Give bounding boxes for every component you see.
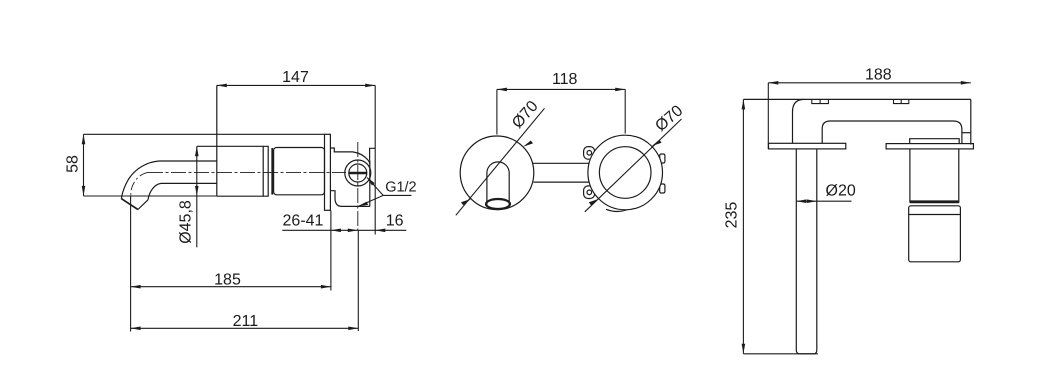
svg-text:Ø20: Ø20 [826,183,856,200]
dimension 188 left arrow [768,81,778,85]
dimension O20 right arrow [807,199,817,203]
body top line [743,98,970,100]
right handle inner circle [599,147,651,199]
bracket top ear hole [587,151,592,156]
dimension 147 line [217,84,375,86]
left O70 diameter line [456,108,545,215]
svg-text:211: 211 [233,313,259,330]
spout mouth inner edge [138,200,148,210]
valve G1/2 inner circle [349,164,367,182]
dimension 235 bottom arrow [742,344,746,354]
dimension 147 left arrow [217,84,227,88]
spout outer curve [121,161,159,199]
dimension 26-41 / 16 line [282,229,406,231]
dimension 235 line [742,99,744,353]
dimension 26-41 left arrow [331,229,341,233]
spout front U shape [487,162,509,206]
valve vertical centerline dash-dot [357,142,359,230]
G1/2 leader circle arrow [367,177,375,186]
extension line spout tip [130,196,132,331]
dimension 118 left arrow [497,88,507,92]
bracket right top tab [660,154,665,163]
elbow pipe wall [793,99,805,143]
valve G1/2 outer circle [345,160,371,186]
dimension O45,8 top arrow [195,146,199,156]
dimension 185 line [131,286,331,288]
G1/2 leader bottom arrow [358,202,368,207]
handle lower barrel line [909,214,961,216]
dimension 235 top arrow [742,99,746,109]
left O70 upper arrow [523,141,533,147]
dimension 16 right arrow [375,229,385,233]
svg-text:147: 147 [282,69,309,86]
handle lower barrel [909,206,961,262]
dimension 211 right arrow [348,327,358,331]
dimension O45,8 top extension line [197,145,217,147]
wall flange [325,134,331,210]
extension line right circle centre [624,89,626,133]
bracket bottom ear hole [587,190,592,195]
svg-text:185: 185 [214,272,241,289]
connecting pipe top line [533,162,590,164]
right O70 lower arrow [589,199,599,205]
extension line left circle centre [496,89,498,134]
spout opening ellipse [486,199,510,209]
spout centerline dash-dot [131,172,148,199]
dimension 147 right extension line [374,85,376,234]
dimension 118 right arrow [615,88,625,92]
dimension 118 line [497,88,625,90]
dimension 58 bottom extension line at body bottom [84,195,217,197]
dimension 185 right arrow [321,285,331,289]
valve slot bar [349,172,367,175]
svg-text:235: 235 [724,202,741,229]
G1/2 leader to circle [367,178,383,196]
right handle outer circle [588,135,663,210]
svg-text:26-41: 26-41 [283,212,324,229]
handle dark joint band [910,200,959,203]
right escutcheon plate [886,144,973,149]
top clip tab left [812,99,829,103]
dimension 211 line [131,327,359,329]
right O70 diameter line [585,119,682,212]
connecting pipe bottom line [534,181,591,183]
dimension O45,8 bottom arrow [195,186,199,196]
svg-text:16: 16 [386,213,404,230]
right O70 upper arrow [652,140,662,146]
right shelf line [962,132,971,134]
body section B outline [274,148,325,195]
bracket right bottom tab [660,184,665,193]
body face / 147 left extension line [216,85,218,196]
svg-text:Ø45,8: Ø45,8 [178,200,195,244]
dimension O20 left arrow [796,199,806,203]
left flange plate [769,143,846,149]
body right edge [970,99,972,144]
bracket top ear [584,147,595,160]
dimension 188 right arrow [961,81,971,85]
svg-text:58: 58 [65,155,82,173]
horizontal centerline of body dash-dot [148,171,346,173]
svg-text:G1/2: G1/2 [385,180,416,196]
dimension 58 top extension line to flange top [84,133,325,135]
body underside wall [822,121,962,144]
valve boss top-right notch [370,148,376,160]
extension line 26-41 left (flange back) [330,211,332,291]
body groove shadow line [271,148,273,195]
valve boss top profile [330,148,370,164]
spout mouth face [121,199,138,210]
bracket bottom ear [584,186,595,199]
dimension O45,8 line [196,146,198,247]
G1/2 leader to bottom port [359,195,383,206]
left O70 lower arrow [461,199,471,205]
dimension 58 bottom arrow [82,186,86,196]
dimension 235 bottom extension line [743,353,818,355]
svg-text:188: 188 [865,67,892,84]
dimension 185 left arrow [131,285,141,289]
bracket bottom tab [606,209,629,211]
dimension 58 top arrow [82,134,86,144]
top clip tab right [894,99,909,103]
extension line 188 left [767,83,769,149]
valve boss right edge [369,160,371,206]
dimension 211 left arrow [131,327,141,331]
supply pipe [796,149,817,354]
G1/2 leader underline [383,194,411,196]
svg-text:118: 118 [552,71,578,88]
dimension 26-41 right arrow [348,229,358,233]
body section A outline [217,146,263,196]
dimension O20 leader line [796,200,851,202]
dimension 58 line [83,134,85,196]
dimension 188 line [768,82,971,84]
body ring [263,146,268,196]
extension line 211 right (valve centre) [357,230,359,331]
left escutcheon circle [460,136,534,210]
handle upper barrel [910,149,959,202]
dimension 147 right arrow [365,84,375,88]
spout tube top line [159,160,217,162]
spout tube bottom line [161,182,217,184]
spout inner curve [148,183,161,199]
valve boss bottom profile [330,191,369,207]
valve collar above plate [910,139,960,144]
